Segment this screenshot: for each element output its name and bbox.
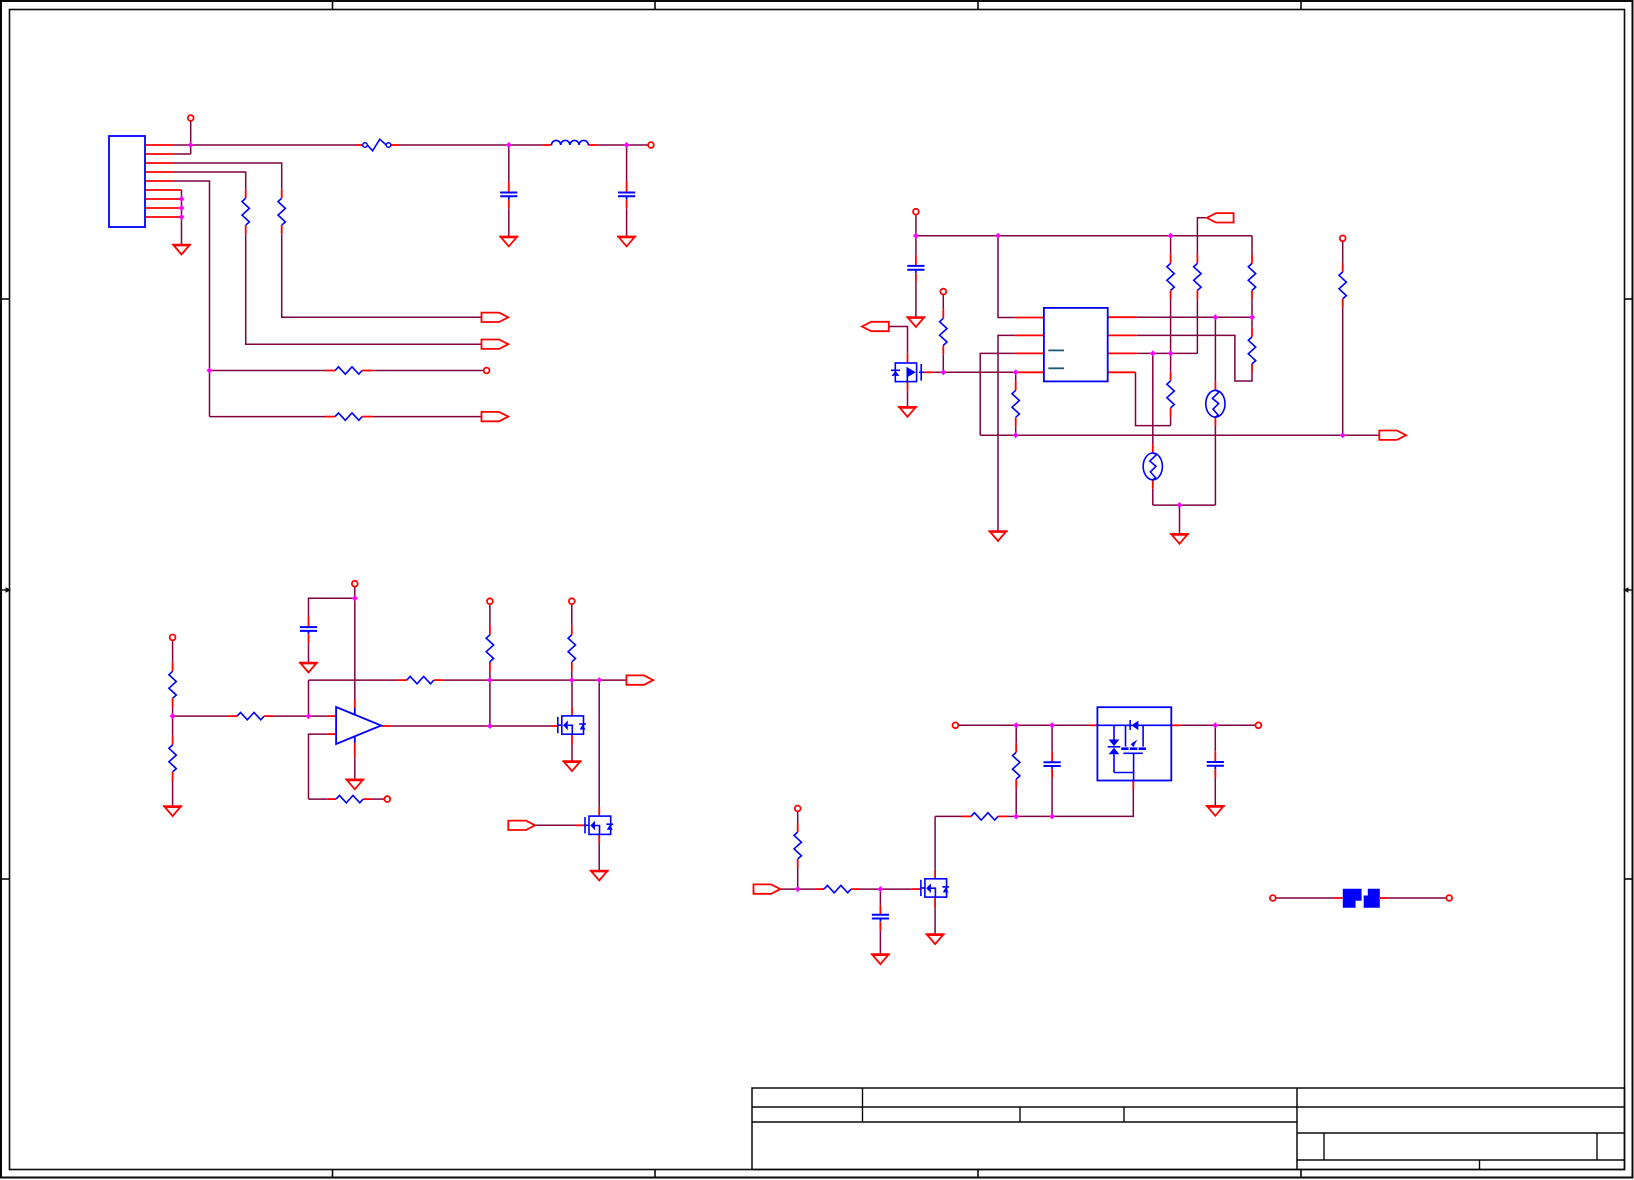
- wire node J up to feedback row: [308, 680, 310, 716]
- wire node M down to Q4 drain: [598, 680, 600, 807]
- title block left row line 2: [752, 1121, 1297, 1123]
- pin stub opamp output: [381, 725, 391, 727]
- wire node U down C7: [1214, 725, 1216, 751]
- wire Q4 source to ground: [598, 844, 600, 871]
- pin stub U2 in: [1090, 724, 1098, 726]
- pin stub Q2 gate: [551, 725, 558, 727]
- pin stub R4 left: [325, 416, 335, 418]
- pin stub C3 bottom: [915, 273, 917, 282]
- node circle output: [648, 142, 654, 148]
- wire R8 bottom to pin8 row: [1251, 299, 1253, 317]
- wire node E to R10: [1170, 353, 1172, 371]
- wire node T down C6 top: [1051, 725, 1053, 751]
- capacitor C2: [618, 193, 635, 200]
- wire node N down to opamp V+: [354, 598, 356, 700]
- pin stub U1 pin4: [1015, 371, 1044, 373]
- zone tick bottom 3: [977, 1170, 979, 1178]
- port pin3 out: [482, 313, 509, 322]
- wire C4 to ground: [308, 643, 310, 662]
- resistor R19: [794, 832, 801, 859]
- transistor Q1 p-mosfet: [891, 363, 924, 382]
- pin stub U1 pin5: [1108, 371, 1136, 373]
- pin stub R5 top: [942, 309, 944, 318]
- pin stub Q4 drain: [598, 807, 600, 816]
- thermistor T1: [1206, 390, 1225, 417]
- resistor R1: [278, 198, 285, 225]
- capacitor C4: [300, 627, 317, 634]
- wire C6 bottom: [1051, 778, 1053, 816]
- resistor R21: [971, 813, 998, 820]
- pin stub R11 top: [1342, 263, 1344, 272]
- wire V+ circle to node N: [354, 587, 356, 599]
- pin stub U1 pin2: [1015, 334, 1044, 336]
- pin stub R17 top: [571, 626, 573, 635]
- node circle top supply: [913, 209, 919, 215]
- pin stub R20 right: [851, 888, 860, 890]
- pin stub T1 bottom: [1214, 417, 1216, 426]
- wire C1 to ground: [508, 208, 510, 236]
- ground for J1 pins: [172, 245, 191, 255]
- wire pin8 row: [1137, 316, 1252, 318]
- wire Q1 source to ground: [907, 391, 909, 407]
- pin stub L1 left: [543, 144, 552, 146]
- pin stub C3 top: [915, 255, 917, 266]
- resistor R22: [1013, 752, 1020, 779]
- wire node N left to C4: [309, 598, 355, 616]
- pin stub T2 top: [1152, 444, 1154, 453]
- wire R15 to node K: [443, 679, 490, 681]
- pin stub Q2 drain: [571, 707, 573, 716]
- title block left cell divider c: [1123, 1107, 1125, 1122]
- pin stub L1 right: [588, 144, 597, 146]
- zone tick top 4: [1300, 1, 1302, 10]
- node circle U2 in: [953, 722, 959, 728]
- junction node O: [487, 723, 493, 729]
- pin stub R7col top: [1170, 254, 1172, 263]
- wire rail corner to R8: [1251, 236, 1253, 255]
- port Q4 gate input: [508, 821, 535, 830]
- wire long rail to port: [980, 434, 1379, 436]
- wire port stub to node P: [780, 888, 797, 890]
- pin stub R18 right: [363, 798, 372, 800]
- pin stub R8col top: [1196, 254, 1198, 263]
- title block left row line 1: [752, 1106, 1297, 1108]
- connector J1: [109, 136, 145, 227]
- pin stub R12 top: [172, 662, 174, 671]
- junction node R: [1013, 813, 1019, 819]
- pin stub opamp plus: [327, 715, 336, 717]
- wire RC row left: [935, 815, 962, 817]
- zone tick right 1: [1625, 298, 1634, 300]
- wire R5 to circle: [942, 295, 944, 310]
- wire R21 to node R: [1007, 815, 1016, 817]
- ground for divider: [163, 806, 182, 816]
- wire R22 bottom: [1015, 788, 1017, 816]
- pin stub R9 top: [1251, 328, 1253, 337]
- wire circle to R17: [571, 604, 573, 626]
- wire pin5 horizontal and vertical: [173, 181, 210, 417]
- zone tick right 2: [1625, 878, 1634, 880]
- zone tick left 2: [1, 878, 10, 880]
- junction node P: [795, 886, 801, 892]
- resistor R10: [1167, 381, 1174, 408]
- wire R18 to circle: [372, 798, 384, 800]
- pin stub R2 bottom: [245, 225, 247, 234]
- pin stub J1 pin2: [145, 153, 173, 155]
- pin stub Q2 source: [571, 734, 573, 744]
- node circle divider top: [170, 635, 176, 641]
- pin stub Q3 drain: [934, 870, 936, 879]
- pin stub R4 right: [362, 416, 373, 418]
- pin stub C7 bottom: [1214, 769, 1216, 778]
- pin stub R13 bottom: [172, 772, 174, 781]
- wire R6 bottom link: [1015, 426, 1017, 435]
- pin stub C1 bottom: [508, 200, 510, 209]
- pin stub R21 right: [998, 815, 1007, 817]
- resistor R2: [242, 198, 249, 225]
- wire node G down to thermistor T1: [1214, 317, 1216, 381]
- wire node B to output circle: [627, 144, 648, 146]
- title block right row line 2: [1297, 1132, 1625, 1134]
- wire node P to R20: [798, 888, 815, 890]
- junction node C: [207, 368, 213, 374]
- wire minus row to R18: [309, 798, 328, 800]
- wire U2 out to circle: [1181, 724, 1256, 726]
- node circle R11 top: [1340, 235, 1346, 241]
- pin stub U1 pin6: [1108, 352, 1137, 354]
- pin stub Q3 gate: [912, 888, 921, 890]
- fuse F2 block right: [1364, 889, 1380, 908]
- pin stub R17 bottom: [571, 662, 573, 671]
- pin stub R19 top: [797, 823, 799, 832]
- node circle U2 out: [1256, 722, 1262, 728]
- wire T1 to bottom link: [1214, 426, 1216, 505]
- wire pin6 row: [1137, 352, 1198, 354]
- wire node R to U2 bottom leg: [1016, 790, 1133, 817]
- pin stub opamp minus: [327, 733, 336, 735]
- resistor R5: [940, 318, 947, 345]
- wire node S down R22 top: [1015, 725, 1017, 743]
- junction pin8: [179, 205, 185, 211]
- pin stub T1 top: [1214, 381, 1216, 390]
- wire node Q to Q3 gate: [880, 888, 911, 890]
- wire node H down to thermistor T2: [1152, 353, 1154, 444]
- junction thermistor ground node: [1177, 502, 1183, 508]
- pin stub Q3 source: [934, 897, 936, 908]
- pin stub C2 top: [626, 182, 628, 193]
- pin stub R1 top: [281, 189, 283, 198]
- resistor R3: [335, 367, 362, 374]
- wire node J to opamp plus input: [309, 715, 328, 717]
- pin stub C5 bottom: [879, 922, 881, 931]
- pin stub U1 pin3: [1015, 352, 1044, 354]
- fuse F2 block left: [1343, 889, 1362, 908]
- pin stub R14 right: [264, 715, 273, 717]
- pin stub J1 pin1: [145, 144, 173, 146]
- port output long rail: [1379, 431, 1406, 440]
- pin stub R8 bottom: [1251, 290, 1253, 299]
- resistor R16: [486, 635, 493, 662]
- ground for C7: [1206, 806, 1225, 816]
- transistor Q2 n-mosfet: [558, 716, 586, 734]
- wire Q4 gate port to stub: [535, 824, 575, 826]
- wire R6 top link: [1015, 372, 1017, 381]
- ground for U1 pin2: [988, 531, 1007, 541]
- thermistor T2: [1143, 453, 1162, 480]
- junction node D gate: [940, 369, 946, 375]
- wire R7col bottom to node E: [1170, 299, 1172, 353]
- pin stub R10 bottom: [1170, 408, 1172, 417]
- node circle R3 right: [484, 368, 490, 374]
- inductor L1: [552, 140, 589, 145]
- pin stub R12 bottom: [172, 698, 174, 707]
- pin stub U1 pin7: [1108, 334, 1137, 336]
- pin stub C6 top: [1051, 751, 1053, 762]
- wire pins6-9 common vertical to ground: [181, 190, 183, 244]
- wire fuse to node A: [400, 144, 509, 146]
- junction node S: [1013, 722, 1019, 728]
- title block right row line 3: [1297, 1159, 1625, 1161]
- pin stub R3 left: [325, 370, 335, 372]
- pin stub R15 right: [434, 679, 443, 681]
- pin stub R3 right: [362, 370, 373, 372]
- node circle R18 right: [384, 796, 390, 802]
- port comparator out: [626, 675, 653, 684]
- resistor R8: [1248, 263, 1255, 290]
- node circle F2 left: [1270, 895, 1276, 901]
- resistor R20: [824, 885, 851, 892]
- pin stub Q1 source: [907, 382, 909, 391]
- wire rail to R7col: [1170, 236, 1172, 255]
- junction node T: [1049, 722, 1055, 728]
- wire Q2 drain up to node L: [571, 680, 573, 707]
- pin stub C1 top: [508, 182, 510, 193]
- junction node U: [1212, 722, 1218, 728]
- pin stub opamp Vplus: [354, 699, 356, 708]
- resistor R4: [335, 413, 362, 420]
- pin stub U2 bottom: [1132, 781, 1134, 790]
- pin stub R8 top: [1251, 254, 1253, 263]
- node circle R19 top: [795, 806, 801, 812]
- wire opamp output to node O: [391, 725, 490, 727]
- wire circle to divider top resistor: [172, 640, 174, 662]
- wire opamp Vminus to ground: [354, 757, 356, 779]
- zone tick top 3: [977, 1, 979, 10]
- resistor R15: [407, 676, 434, 683]
- wire bottom link: [1153, 504, 1216, 506]
- junction node B: [624, 142, 630, 148]
- capacitor C7: [1207, 762, 1224, 769]
- wire R17 to node L: [571, 671, 573, 680]
- pin stub Q4 gate: [575, 824, 585, 826]
- port pin4 out: [482, 340, 509, 349]
- junction rail R6: [1013, 432, 1019, 438]
- pin stub R22 top: [1015, 743, 1017, 752]
- pin stub C2 bottom: [626, 200, 628, 209]
- wire pin2 to vertical: [173, 153, 191, 155]
- pin stub J1 pin3: [145, 162, 173, 164]
- wire R11 to rail junction: [1342, 308, 1344, 435]
- zone tick bottom 1: [332, 1170, 334, 1178]
- pin stub R6 bottom: [1015, 417, 1017, 426]
- wire node O to Q2 gate: [490, 725, 551, 727]
- fuse F1: [363, 139, 391, 151]
- pin stub fuse F1 right: [391, 144, 400, 146]
- wire R14 to node J: [273, 715, 308, 717]
- U1 inner mark 1: [1048, 349, 1064, 351]
- wire pin4 resistor to port: [246, 234, 482, 344]
- wire lower branch to resistor R4: [210, 416, 326, 418]
- node circle R5 top: [940, 289, 946, 295]
- junction supply node: [913, 233, 919, 239]
- pin stub fuse F1 left: [356, 144, 363, 146]
- resistor R14: [237, 712, 264, 719]
- pin stub Q1 drain: [907, 354, 909, 363]
- wire fuse F2 to circle: [1389, 897, 1447, 899]
- port input left to Q1: [862, 322, 889, 331]
- resistor R7col: [1167, 263, 1174, 290]
- pin stub R5 bottom: [942, 345, 944, 354]
- zone tick bottom 4: [1300, 1170, 1302, 1178]
- wire R4 to port: [373, 416, 482, 418]
- resistor R8col: [1194, 263, 1201, 290]
- port pin5 out: [482, 412, 509, 421]
- wire Q1 gate to node D: [933, 371, 943, 373]
- wire Q3 source to ground: [934, 908, 936, 934]
- junction node Q: [877, 886, 883, 892]
- junction rail pin1: [995, 233, 1001, 239]
- pin stub opamp Vminus: [354, 743, 356, 758]
- node circle opamp supply: [352, 581, 358, 587]
- wire circle to fuse F2: [1276, 897, 1334, 899]
- pin stub J1 pin6: [145, 189, 182, 191]
- pin stub R2 top: [245, 189, 247, 198]
- pin stub Q1 gate: [924, 371, 933, 373]
- wire port to Q1 drain: [889, 327, 908, 354]
- junction pin7: [179, 196, 185, 202]
- wire node D up to R5: [942, 354, 944, 372]
- ground for Q1: [898, 407, 917, 417]
- junction node F: [1249, 314, 1255, 320]
- ground for Q3: [925, 934, 944, 944]
- capacitor C5: [872, 915, 889, 922]
- transistor Q3 n-mosfet: [921, 879, 949, 897]
- wire pin5 link down: [1136, 372, 1171, 425]
- wire pin4 horizontal: [173, 172, 246, 189]
- junction node E: [1168, 350, 1174, 356]
- wire node A down to C1: [508, 145, 510, 182]
- wire C3 to ground: [915, 282, 917, 317]
- wire R16 to node K: [489, 671, 491, 680]
- pin stub R14 left: [228, 715, 237, 717]
- pin stub U1 pin1: [1015, 317, 1044, 319]
- wire pin3 resistor to port: [282, 234, 482, 317]
- op-amp U3: [336, 707, 381, 744]
- wire node F to R9: [1251, 317, 1253, 328]
- load switch U2: [1097, 707, 1171, 780]
- ground for C5: [871, 954, 890, 964]
- wire R3 to circle: [373, 370, 484, 372]
- wire Q2 source to ground: [571, 745, 573, 761]
- capacitor C3: [907, 266, 924, 273]
- title block outline: [752, 1088, 1625, 1170]
- capacitor C6: [1044, 762, 1061, 769]
- port input top right: [1207, 213, 1234, 222]
- U1 inner mark 2: [1048, 367, 1064, 369]
- wire node C to resistor R3: [210, 370, 326, 372]
- pin stub J1 pin8: [145, 207, 182, 209]
- ground for C1: [499, 237, 518, 247]
- pin stub J1 pin7: [145, 198, 182, 200]
- wire node K to node L to port: [490, 679, 627, 681]
- junction node A: [506, 142, 512, 148]
- title block left cell divider a: [862, 1088, 864, 1122]
- junction node L: [569, 677, 575, 683]
- resistor R18: [336, 795, 363, 802]
- ground for C3: [906, 317, 925, 327]
- pin stub C7 top: [1214, 751, 1216, 762]
- pin stub R10 top: [1170, 372, 1172, 381]
- pin stub J1 pin4: [145, 171, 173, 173]
- zone tick top 2: [654, 1, 656, 10]
- wire node D to U1 pin4: [943, 371, 1015, 373]
- junction node N: [352, 595, 358, 601]
- wire node K down to output row: [489, 680, 491, 726]
- wire rail to C3: [915, 236, 917, 255]
- wire top rail: [916, 235, 1252, 237]
- junction pin9: [179, 214, 185, 220]
- wire U1 pin2 to ground: [998, 335, 1015, 531]
- wire circle to R11: [1342, 241, 1344, 263]
- ground for opamp Vminus: [345, 779, 364, 789]
- ground for Q4: [590, 871, 609, 881]
- wire R13 to ground: [172, 781, 174, 806]
- pin stub U2 out: [1171, 724, 1181, 726]
- wire pin3 horizontal: [173, 163, 282, 189]
- zone tick left 1: [1, 298, 10, 300]
- pin stub R7col bottom: [1170, 290, 1172, 299]
- wire circle P1 drop to pin2: [190, 121, 192, 154]
- pin stub R20 left: [815, 888, 824, 890]
- wire C5 to ground: [879, 931, 881, 954]
- pin stub R15 left: [398, 679, 407, 681]
- wire R8col bottom to pin6 row: [1196, 299, 1198, 353]
- pin stub R16 top: [489, 626, 491, 635]
- junction pin4 node: [1013, 369, 1019, 375]
- resistor R17: [568, 635, 575, 662]
- node circle R16 top: [487, 598, 493, 604]
- junction node M: [596, 677, 602, 683]
- pin stub R21 left: [962, 815, 971, 817]
- wire node I to R13: [172, 716, 174, 736]
- wire C2 to ground: [626, 208, 628, 236]
- junction rail R11: [1340, 432, 1346, 438]
- wire node I to R14: [173, 715, 229, 717]
- title block left cell divider b: [1019, 1107, 1021, 1122]
- resistor R9: [1248, 337, 1255, 364]
- pin stub R13 top: [172, 736, 174, 745]
- ground for thermistor node: [1170, 534, 1189, 544]
- title block sheet cell divider: [1479, 1160, 1481, 1170]
- junction node H: [1150, 350, 1156, 356]
- junction node J: [306, 713, 312, 719]
- pin stub F2 right: [1380, 897, 1389, 899]
- wire node A to inductor: [509, 144, 543, 146]
- ground for C2: [617, 237, 636, 247]
- wire node Q down to C5: [879, 889, 881, 906]
- pin stub R9 bottom: [1251, 364, 1253, 373]
- wire circle to R19: [797, 811, 799, 823]
